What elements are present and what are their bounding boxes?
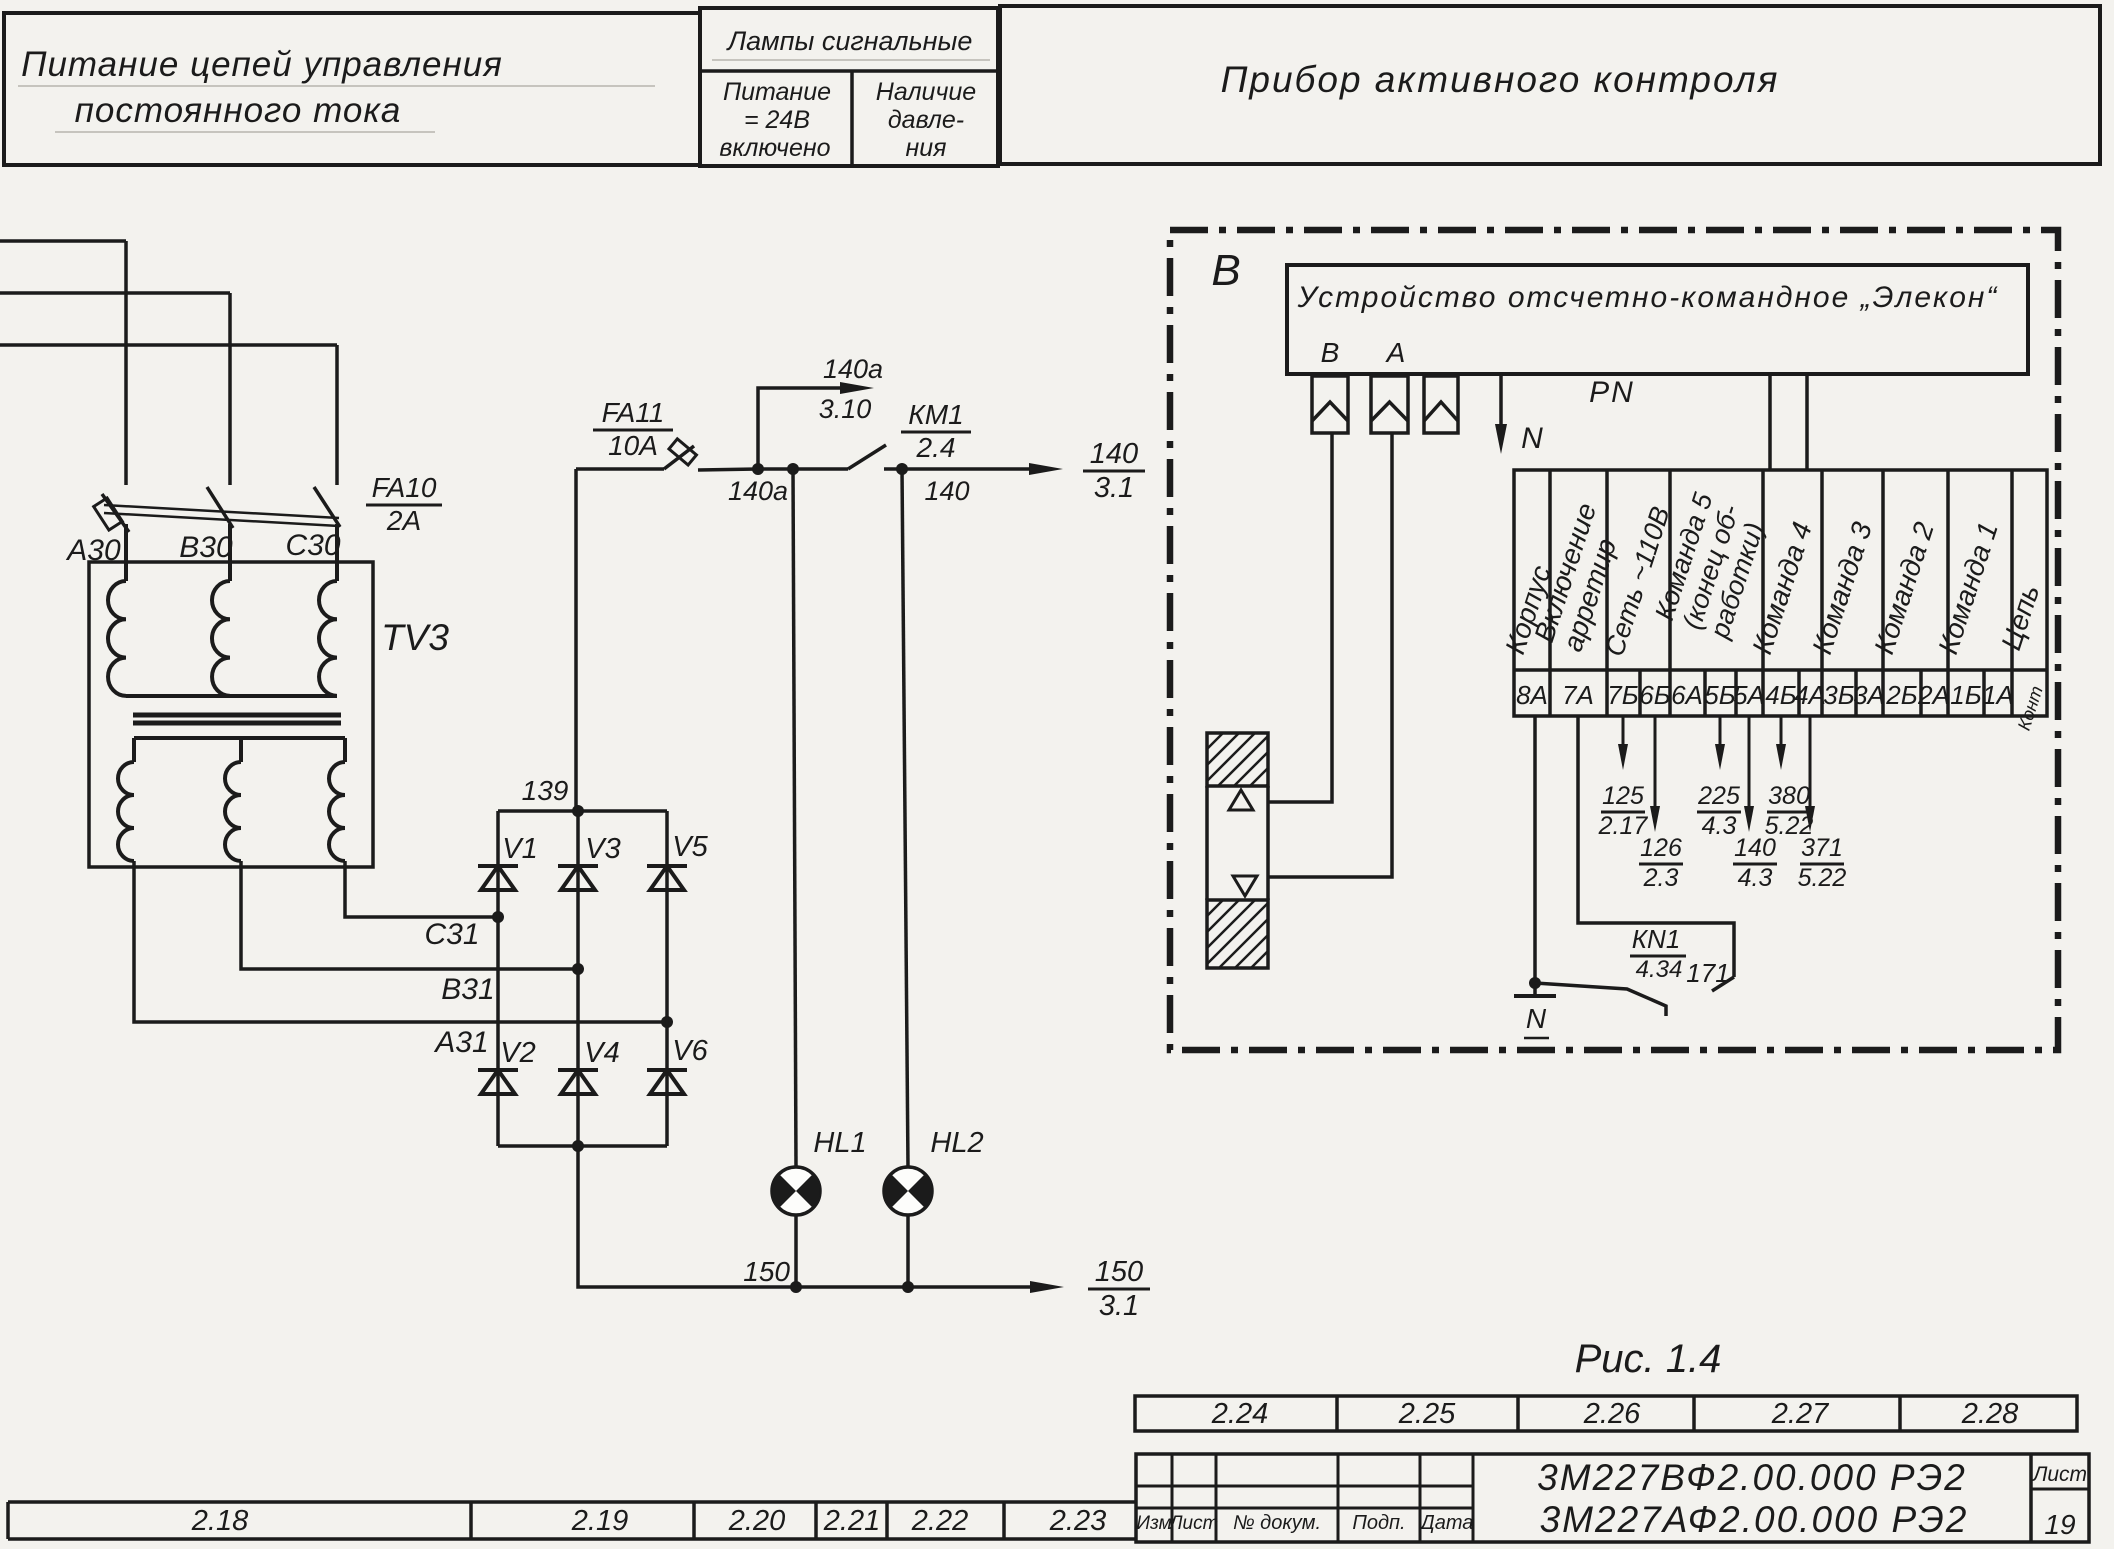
svg-text:А31: А31 [433, 1026, 488, 1059]
svg-text:3М227ВФ2.00.000 РЭ2: 3М227ВФ2.00.000 РЭ2 [1537, 1457, 1967, 1498]
svg-text:3.1: 3.1 [1094, 472, 1134, 504]
svg-text:Наличие: Наличие [876, 78, 976, 106]
svg-text:140а: 140а [823, 354, 883, 384]
svg-text:В30: В30 [179, 531, 233, 564]
svg-text:Конт: Конт [2014, 683, 2047, 732]
svg-text:FA11: FA11 [602, 397, 665, 428]
svg-text:5Б: 5Б [1704, 680, 1735, 710]
svg-text:139: 139 [522, 775, 569, 806]
svg-text:Команда 1: Команда 1 [1932, 518, 2004, 658]
svg-text:N: N [1526, 1003, 1547, 1034]
svg-text:4.3: 4.3 [1738, 864, 1773, 892]
svg-text:2.24: 2.24 [1211, 1398, 1268, 1430]
svg-text:Прибор активного контроля: Прибор активного контроля [1221, 59, 1780, 100]
svg-text:126: 126 [1640, 834, 1682, 862]
svg-text:В31: В31 [441, 973, 494, 1006]
svg-text:А: А [1385, 337, 1406, 368]
svg-text:2Б: 2Б [1885, 680, 1917, 710]
svg-text:140: 140 [924, 476, 969, 506]
svg-text:150: 150 [1095, 1256, 1143, 1288]
svg-text:380: 380 [1768, 782, 1810, 810]
svg-text:150: 150 [743, 1256, 790, 1287]
svg-text:НL1: НL1 [813, 1127, 866, 1159]
svg-text:1А: 1А [1982, 680, 2014, 710]
svg-text:Цепь: Цепь [1995, 581, 2045, 654]
svg-text:V2: V2 [500, 1037, 535, 1069]
svg-text:3Б: 3Б [1823, 680, 1854, 710]
svg-text:V4: V4 [584, 1037, 619, 1069]
svg-text:Команда 3: Команда 3 [1806, 518, 1878, 658]
svg-text:РN: РN [1589, 376, 1635, 409]
svg-text:125: 125 [1602, 782, 1644, 810]
svg-text:В: В [1321, 337, 1340, 368]
svg-text:включено: включено [719, 134, 830, 162]
svg-text:Подп.: Подп. [1352, 1512, 1405, 1534]
svg-text:2.19: 2.19 [571, 1505, 628, 1537]
svg-text:ния: ния [905, 134, 946, 162]
svg-text:140а: 140а [728, 476, 788, 506]
svg-text:2А: 2А [386, 505, 421, 536]
svg-text:КМ1: КМ1 [908, 399, 963, 430]
svg-text:№ докум.: № докум. [1233, 1512, 1321, 1534]
svg-text:8А: 8А [1516, 680, 1548, 710]
svg-text:4.3: 4.3 [1702, 812, 1737, 840]
svg-text:Устройство отсчетно-командное: Устройство отсчетно-командное „Элекон“ [1297, 281, 1999, 314]
svg-text:давле-: давле- [888, 106, 964, 134]
svg-text:3М227АФ2.00.000 РЭ2: 3М227АФ2.00.000 РЭ2 [1540, 1499, 1969, 1540]
svg-text:5А: 5А [1733, 680, 1765, 710]
svg-text:Изм: Изм [1136, 1513, 1171, 1534]
svg-text:2А: 2А [1917, 680, 1950, 710]
svg-text:6Б: 6Б [1639, 680, 1670, 710]
svg-text:2.18: 2.18 [191, 1505, 248, 1537]
svg-text:2.26: 2.26 [1583, 1398, 1641, 1430]
svg-text:3А: 3А [1853, 680, 1885, 710]
svg-text:1Б: 1Б [1950, 680, 1981, 710]
svg-text:Лист: Лист [2031, 1463, 2087, 1486]
svg-text:2.25: 2.25 [1398, 1398, 1456, 1430]
svg-text:Питание цепей управления: Питание цепей управления [21, 45, 503, 84]
svg-text:Лист: Лист [1168, 1513, 1219, 1534]
svg-text:В: В [1211, 246, 1240, 295]
svg-text:2.28: 2.28 [1961, 1398, 2018, 1430]
svg-text:3.1: 3.1 [1099, 1290, 1139, 1322]
svg-text:TV3: TV3 [381, 617, 449, 658]
svg-text:= 24В: = 24В [744, 106, 810, 134]
svg-text:4Б: 4Б [1765, 680, 1796, 710]
svg-text:171: 171 [1686, 958, 1729, 988]
svg-text:4А: 4А [1794, 680, 1826, 710]
svg-text:КN1: КN1 [1632, 924, 1681, 954]
svg-text:140: 140 [1090, 438, 1138, 470]
svg-text:2.27: 2.27 [1771, 1398, 1830, 1430]
svg-text:2.3: 2.3 [1643, 864, 1679, 892]
svg-text:2.22: 2.22 [911, 1505, 968, 1537]
svg-text:Дата: Дата [1419, 1512, 1474, 1534]
svg-text:5.22: 5.22 [1798, 864, 1847, 892]
svg-text:V1: V1 [502, 833, 537, 865]
svg-text:Рис. 1.4: Рис. 1.4 [1575, 1337, 1722, 1381]
svg-text:V6: V6 [672, 1035, 708, 1067]
svg-text:V3: V3 [585, 833, 620, 865]
svg-text:10А: 10А [608, 430, 658, 461]
svg-text:2.21: 2.21 [823, 1505, 880, 1537]
svg-text:V5: V5 [672, 831, 708, 863]
svg-text:постоянного тока: постоянного тока [75, 91, 402, 130]
svg-text:С31: С31 [424, 918, 479, 951]
svg-text:2.23: 2.23 [1049, 1505, 1106, 1537]
svg-text:FA10: FA10 [372, 472, 437, 503]
svg-text:371: 371 [1801, 834, 1843, 862]
svg-text:3.10: 3.10 [819, 394, 872, 424]
svg-text:Команда 2: Команда 2 [1868, 518, 1940, 658]
svg-text:4.34: 4.34 [1636, 956, 1683, 983]
svg-text:6А: 6А [1671, 680, 1703, 710]
svg-text:2.4: 2.4 [916, 432, 956, 463]
svg-text:НL2: НL2 [930, 1127, 983, 1159]
svg-text:7А: 7А [1562, 680, 1594, 710]
svg-text:225: 225 [1697, 782, 1740, 810]
svg-text:С30: С30 [285, 529, 340, 562]
svg-text:Лампы сигнальные: Лампы сигнальные [726, 26, 973, 56]
svg-text:7Б: 7Б [1607, 680, 1638, 710]
svg-text:2.20: 2.20 [728, 1505, 785, 1537]
svg-text:Питание: Питание [723, 78, 831, 106]
svg-text:N: N [1521, 422, 1543, 455]
svg-text:19: 19 [2044, 1509, 2075, 1540]
